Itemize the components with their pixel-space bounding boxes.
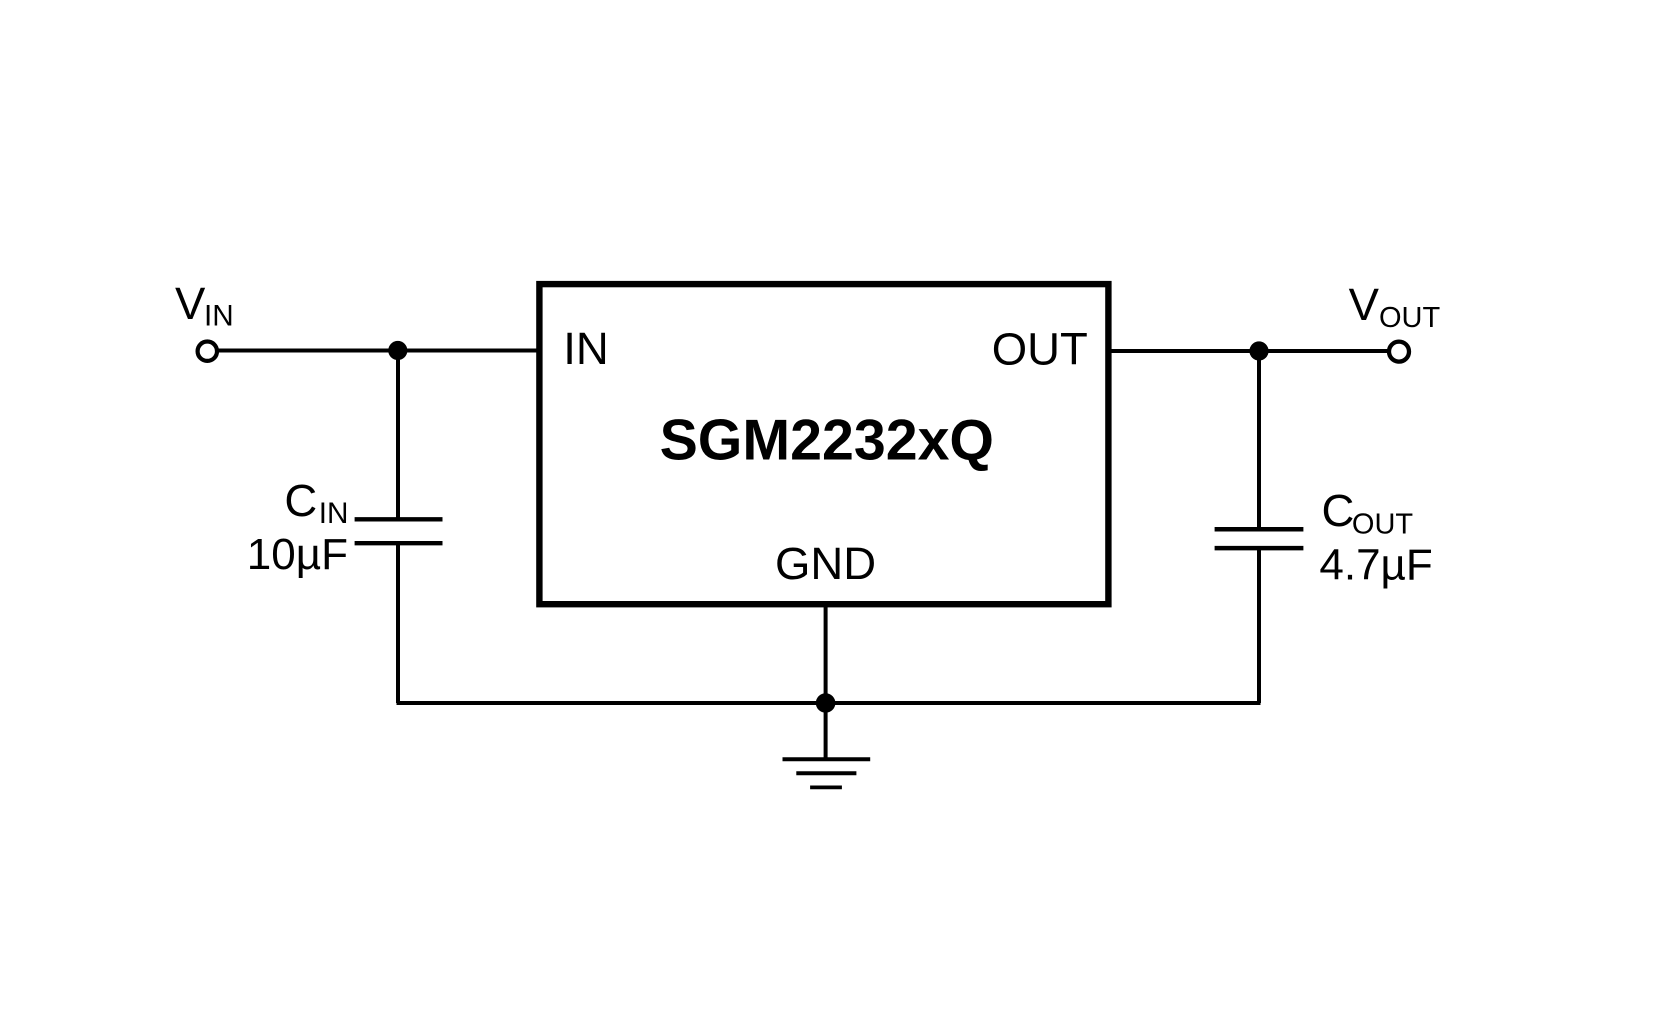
svg-text:10µF: 10µF — [247, 530, 348, 579]
wire OUT output rail — [1108, 349, 1399, 353]
label COUT — [1322, 485, 1414, 541]
svg-text:IN: IN — [204, 299, 234, 332]
svg-text:OUT: OUT — [1352, 508, 1414, 540]
terminal VOUT — [1389, 342, 1409, 362]
svg-text:GND: GND — [775, 538, 876, 589]
node C output junction — [1249, 341, 1268, 360]
capacitor CIN — [355, 519, 443, 543]
svg-text:C: C — [284, 475, 317, 526]
svg-text:4.7µF: 4.7µF — [1319, 541, 1432, 590]
svg-text:V: V — [1349, 279, 1380, 330]
terminal VIN — [198, 342, 217, 361]
svg-text:IN: IN — [319, 497, 349, 530]
svg-text:V: V — [175, 278, 206, 329]
svg-text:OUT: OUT — [1379, 302, 1441, 334]
node A input junction — [388, 341, 407, 360]
label VIN — [175, 278, 234, 332]
label CIN — [284, 475, 348, 530]
svg-text:SGM2232xQ: SGM2232xQ — [660, 408, 994, 472]
svg-text:C: C — [1322, 485, 1355, 536]
ic U1 SGM2232xQ box — [539, 284, 1108, 604]
wire CIN top lead — [396, 351, 400, 518]
wire ground bus — [397, 701, 1261, 705]
node B ground junction — [816, 693, 836, 713]
svg-text:IN: IN — [563, 323, 609, 374]
wire GND pin lead — [824, 604, 828, 703]
wire VIN input rail — [207, 349, 539, 353]
ground — [783, 703, 871, 787]
wire COUT bottom lead — [1257, 550, 1261, 703]
label VOUT — [1349, 279, 1441, 334]
capacitor COUT — [1215, 529, 1304, 548]
wire COUT top lead — [1257, 351, 1261, 527]
svg-text:OUT: OUT — [992, 324, 1088, 375]
wire CIN bottom lead — [396, 545, 400, 703]
